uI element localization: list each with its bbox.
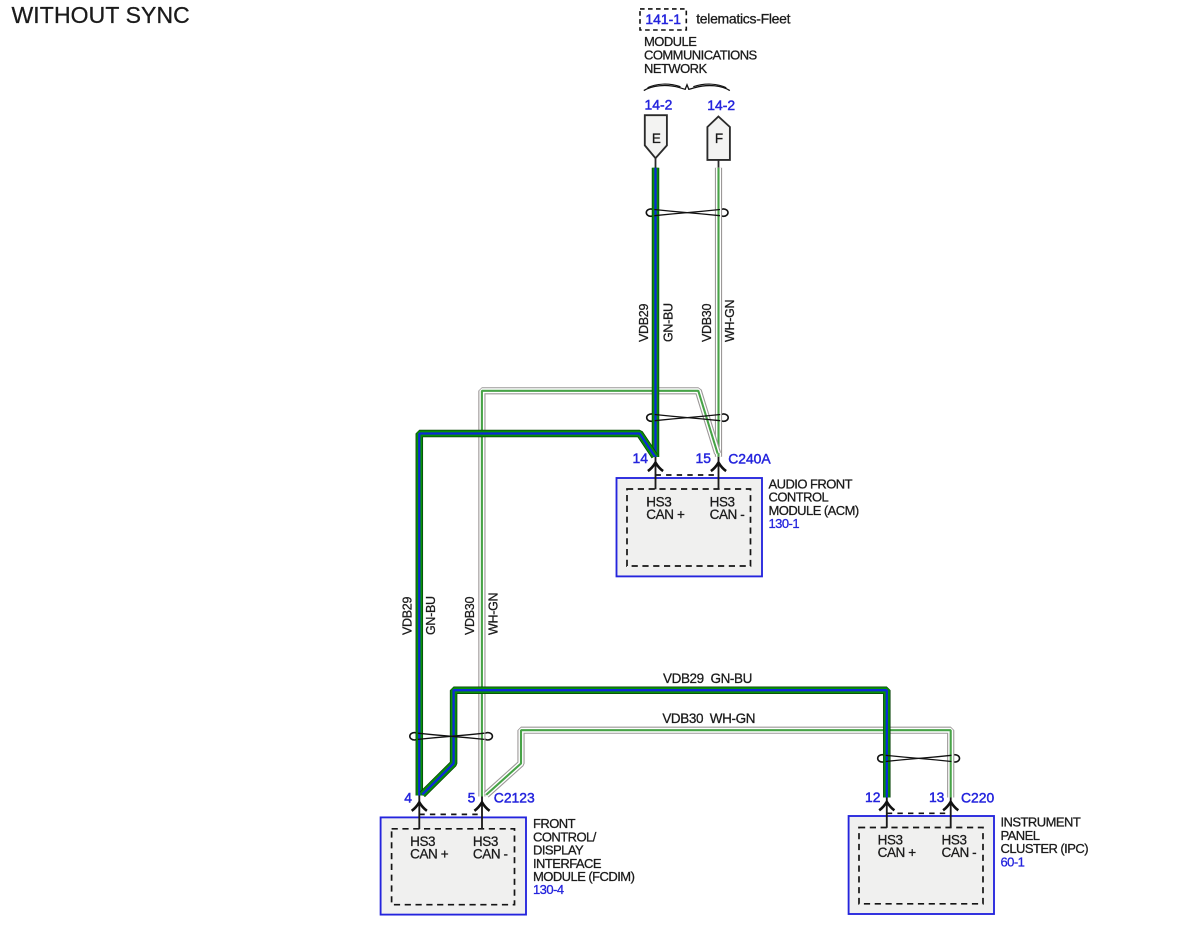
label HS3 CAN + (ACM pin 14) — [646, 495, 685, 523]
svg-text:14-2: 14-2 — [645, 96, 673, 112]
svg-text:13: 13 — [929, 789, 945, 805]
module box FRONT CONTROL/DISPLAY INTERFACE MODULE (FCDIM) — [381, 817, 526, 914]
label IPC module name — [1001, 815, 1089, 870]
twisted-pair crossing upper — [654, 210, 720, 216]
svg-text:WITHOUT SYNC: WITHOUT SYNC — [12, 2, 190, 28]
svg-text:CAN +: CAN + — [410, 847, 449, 862]
brace (network bundle) — [644, 84, 730, 90]
connector dashed line C220 — [887, 812, 951, 814]
svg-text:CAN +: CAN + — [878, 845, 917, 860]
svg-text:141-1: 141-1 — [645, 11, 681, 27]
module box AUDIO FRONT CONTROL MODULE (ACM) — [617, 478, 763, 576]
svg-text:CAN -: CAN - — [473, 847, 508, 862]
pin 12 (IPC HS3 CAN+) — [865, 789, 894, 828]
wire VDB29 GN-BU run pin4 to pin 12 — [422, 690, 887, 797]
twisted-pair circles above C220 — [878, 755, 960, 762]
wire VDB29 GN-BU branch pin14 to pin 4 — [419, 434, 655, 796]
connector E — [645, 115, 667, 168]
pin 14 (ACM HS3 CAN+) — [633, 450, 664, 490]
pin 13 (IPC HS3 CAN-) — [929, 789, 958, 828]
label HS3 CAN + (IPC pin 12) — [878, 833, 917, 861]
label HS3 CAN - (FCDIM pin 5) — [473, 834, 508, 862]
wire VDB30 WH-GN branch pin15 to pin 5 — [482, 391, 718, 797]
connector box 141-1 — [640, 9, 686, 30]
svg-text:NETWORK: NETWORK — [644, 61, 707, 76]
label HS3 CAN - (IPC pin 13) — [942, 833, 977, 861]
svg-text:VDB29 GN-BU: VDB29 GN-BU — [663, 671, 752, 686]
twisted-pair crossing above C240A — [655, 415, 721, 421]
pin 4 (FCDIM HS3 CAN+) — [404, 790, 427, 830]
twisted-pair crossing above C220 — [886, 755, 952, 761]
svg-text:E: E — [652, 131, 661, 146]
svg-text:4: 4 — [404, 790, 412, 806]
svg-text:F: F — [715, 131, 723, 146]
svg-text:C240A: C240A — [728, 450, 771, 466]
label FCDIM module name — [533, 816, 635, 897]
svg-text:60-1: 60-1 — [1001, 854, 1025, 869]
svg-text:VDB30 WH-GN: VDB30 WH-GN — [662, 711, 755, 726]
svg-text:VDB30: VDB30 — [463, 597, 477, 635]
twisted-pair circles above C240A — [647, 414, 729, 421]
connector F — [707, 117, 730, 169]
svg-text:C220: C220 — [961, 789, 994, 805]
svg-text:C2123: C2123 — [494, 790, 535, 806]
svg-text:VDB30: VDB30 — [700, 304, 714, 342]
svg-text:GN-BU: GN-BU — [424, 596, 438, 635]
module box INSTRUMENT PANEL CLUSTER (IPC) — [849, 816, 994, 914]
connector dashed line C2123 — [419, 813, 482, 815]
label HS3 CAN - (ACM pin 15) — [710, 495, 745, 523]
svg-text:VDB29: VDB29 — [637, 304, 651, 342]
twisted-pair circles above C2123 — [410, 733, 493, 740]
svg-text:WH-GN: WH-GN — [723, 299, 737, 342]
wire VDB30 WH-GN from connector F to pin 15 — [715, 168, 722, 457]
connector dashed line C240A — [656, 474, 719, 476]
svg-text:15: 15 — [696, 450, 712, 466]
svg-text:12: 12 — [865, 789, 881, 805]
svg-text:GN-BU: GN-BU — [661, 303, 675, 342]
label ACM module name — [769, 476, 859, 531]
label HS3 CAN + (FCDIM pin 4) — [410, 834, 449, 862]
wire VDB30 WH-GN run pin5 to pin 13 — [486, 730, 951, 797]
svg-text:130-1: 130-1 — [769, 516, 800, 531]
svg-text:CAN -: CAN - — [710, 507, 745, 522]
label MODULE COMMUNICATIONS NETWORK — [644, 34, 758, 76]
svg-text:telematics-Fleet: telematics-Fleet — [696, 10, 790, 26]
svg-text:5: 5 — [468, 790, 476, 806]
svg-text:130-4: 130-4 — [533, 882, 564, 897]
svg-text:CAN -: CAN - — [942, 845, 977, 860]
twisted-pair crossing above C2123 — [418, 733, 485, 739]
svg-text:VDB29: VDB29 — [400, 597, 414, 635]
svg-text:WH-GN: WH-GN — [487, 592, 501, 635]
pin 5 (FCDIM HS3 CAN-) — [468, 790, 490, 830]
pin 15 (ACM HS3 CAN-) — [696, 450, 727, 490]
wire VDB29 GN-BU from connector E to pin 14 — [652, 168, 660, 457]
svg-text:14-2: 14-2 — [707, 97, 735, 113]
twisted-pair circles upper — [646, 209, 728, 216]
svg-text:CAN +: CAN + — [646, 507, 685, 522]
svg-text:14: 14 — [633, 450, 649, 466]
